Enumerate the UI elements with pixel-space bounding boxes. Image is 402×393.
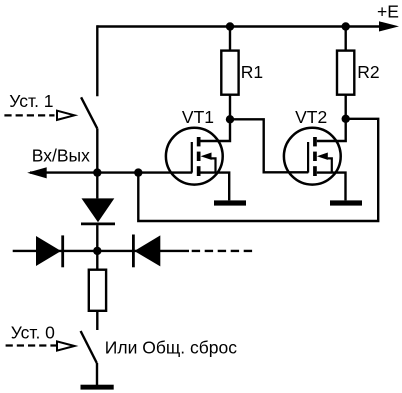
wire switch S2 to ground xyxy=(96,363,98,385)
svg-text:Вх/Вых: Вх/Вых xyxy=(32,145,90,165)
svg-text:Уст. 1: Уст. 1 xyxy=(9,91,53,111)
svg-text:+E: +E xyxy=(377,1,399,21)
svg-text:Или Общ. сброс: Или Общ. сброс xyxy=(105,338,237,358)
svg-text:R1: R1 xyxy=(241,62,263,82)
transistor VT2 xyxy=(284,128,341,185)
wire VT2 drain xyxy=(317,119,346,141)
svg-text:Уст. 0: Уст. 0 xyxy=(11,323,55,343)
switch S1 blade (Уст. 1) xyxy=(81,97,97,128)
power arrow +E xyxy=(379,21,399,31)
wire VT1 drain xyxy=(201,119,231,141)
wire cross-coupling VT2 drain to I/O node xyxy=(138,119,378,221)
node diode row center xyxy=(93,247,101,255)
node I/O at switch column xyxy=(93,168,101,176)
resistor R3 (vertical, unlabeled) xyxy=(89,251,106,330)
dashed leader Уст. 0 xyxy=(6,344,57,346)
svg-text:VT2: VT2 xyxy=(295,107,327,127)
dashed leader Уст. 1 xyxy=(4,114,54,116)
node I/O at feedback column xyxy=(134,168,142,176)
svg-text:R2: R2 xyxy=(357,62,379,82)
svg-text:VT1: VT1 xyxy=(182,107,214,127)
node VT1 drain xyxy=(226,115,234,123)
ground VT1 xyxy=(214,200,246,205)
wire Вх/Вых I/O line xyxy=(30,171,192,173)
wire top rail +E xyxy=(97,25,388,27)
wire left vertical from rail to switch S1 xyxy=(96,25,98,96)
transistor VT1 xyxy=(166,128,223,185)
diode VD3 (points left) xyxy=(133,235,160,268)
resistor R1 xyxy=(221,27,238,120)
node VT2 drain xyxy=(342,115,350,123)
hollow arrow Уст. 1 xyxy=(57,111,75,120)
wire cross-coupling VT1 drain to VT2 gate xyxy=(230,119,308,172)
arrowhead Вх/Вых (points left) xyxy=(27,167,47,178)
hollow arrow Уст. 0 xyxy=(57,341,75,350)
diode VD1 (vertical, anode up) xyxy=(81,173,115,251)
ground VT2 xyxy=(330,200,362,205)
diode VD2 (points right) xyxy=(36,235,63,267)
ground bottom xyxy=(81,385,114,390)
wire switch S1 to I/O line xyxy=(96,128,98,172)
wire VT2 source to ground xyxy=(317,173,346,201)
wire diode row horizontal xyxy=(13,250,189,252)
resistor R2 xyxy=(337,27,354,119)
wire diode row dashed continuation xyxy=(192,250,254,252)
node top rail left xyxy=(226,22,234,30)
switch S2 blade (Уст. 0 / Или Общ. сброс) xyxy=(81,331,97,363)
wire VT1 source to ground xyxy=(201,173,230,201)
node top rail right xyxy=(342,22,350,30)
